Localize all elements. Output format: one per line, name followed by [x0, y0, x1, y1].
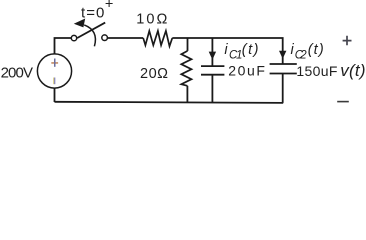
svg-text:200V: 200V: [1, 64, 33, 81]
svg-text:+: +: [105, 0, 113, 13]
svg-text:150uF: 150uF: [296, 63, 337, 79]
svg-text:(t): (t): [308, 42, 324, 58]
svg-text:20uF: 20uF: [228, 63, 265, 79]
svg-text:2: 2: [299, 50, 307, 62]
svg-text:(t): (t): [242, 42, 259, 58]
svg-text:t=0: t=0: [81, 4, 104, 21]
svg-text:10Ω: 10Ω: [136, 12, 167, 28]
svg-text:v(t): v(t): [340, 61, 365, 80]
svg-text:20Ω: 20Ω: [140, 66, 168, 82]
